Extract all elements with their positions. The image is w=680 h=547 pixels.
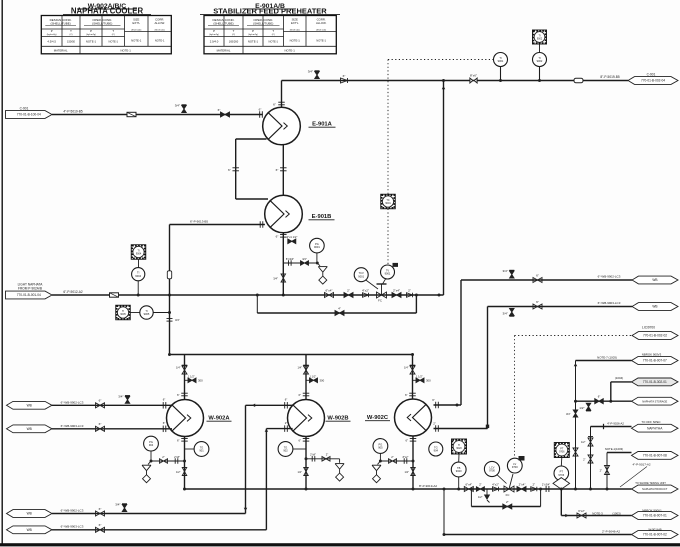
flange on E-901A/B stem: [280, 167, 287, 169]
node before corner riser: [438, 294, 441, 297]
node drain junction: [316, 262, 319, 265]
node overhead line / riser junction: [442, 79, 445, 82]
heat exchanger W-902A: [167, 400, 204, 437]
connector flag WB supply 3: [7, 510, 53, 518]
svg-text:2": 2": [433, 422, 436, 426]
connector flag NBROK 900V1: [632, 512, 679, 520]
wire off-spec line: [591, 426, 632, 428]
wire C-901 inlet line to E-901A: [52, 114, 263, 116]
wire W-902B bottom stem: [305, 437, 307, 490]
vent valve on W-902A bottom stem: [182, 468, 187, 476]
svg-text:NOTE-1: NOTE-1: [248, 40, 259, 44]
drain funnel W-902B: [339, 459, 341, 463]
wire W-902C drain line: [380, 460, 413, 462]
svg-text:(Shell side): (Shell side): [316, 30, 326, 32]
wire W-902B top stem: [305, 355, 307, 401]
wire bottom product line: [185, 488, 632, 490]
svg-text:NOTE-1: NOTE-1: [121, 48, 132, 52]
svg-text:(SHELL/TUBE): (SHELL/TUBE): [253, 21, 273, 25]
wire NBROK drop from product line: [560, 489, 562, 516]
svg-text:2": 2": [408, 288, 411, 292]
svg-text:(Shell side): (Shell side): [155, 30, 165, 32]
flange W-902B upper nozzle: [284, 402, 286, 409]
svg-text:LIC/9700: LIC/9700: [642, 326, 655, 330]
wire NOTE-1 branch line: [607, 452, 632, 454]
wire bypass right rise: [415, 295, 417, 313]
valve 6 on supply 1: [96, 403, 105, 408]
vent valve on supply 3: [122, 505, 127, 512]
signal line dashed horizontal to TI-9001: [388, 59, 494, 61]
connector flag NOTE-1: [632, 452, 679, 460]
reducer on main line: [110, 293, 119, 297]
instrument interlock box on signal riser: [381, 194, 396, 209]
svg-text:6": 6": [598, 395, 601, 399]
wire NOTE-1 branch riser x607: [606, 453, 608, 490]
svg-text:1/4": 1/4": [297, 366, 302, 370]
svg-text:2"x8": 2"x8": [310, 454, 316, 457]
instrument LCV-9700: [484, 461, 499, 476]
svg-text:8"x3/4": 8"x3/4": [286, 257, 294, 261]
connector flag WB supply 4: [7, 526, 53, 534]
svg-text:W-902A: W-902A: [208, 415, 230, 421]
svg-text:ALLOW.: ALLOW.: [316, 21, 327, 25]
svg-text:6"-WB-9903-LC3: 6"-WB-9903-LC3: [598, 301, 621, 305]
svg-text:2"x8": 2"x8": [174, 456, 180, 459]
svg-text:2": 2": [532, 482, 535, 486]
spec blind valve 1-1/2 300 at W-902C: [413, 379, 417, 381]
wire feed riser x169: [169, 225, 171, 296]
flange on W-902C drain: [403, 458, 405, 464]
svg-text:6"-WB-9903-LC3: 6"-WB-9903-LC3: [61, 424, 84, 428]
instrument PT-9706: [554, 466, 569, 481]
flange E-901A top nozzle: [278, 101, 285, 103]
svg-text:3/4": 3/4": [115, 503, 120, 507]
wire E-901A overhead outlet line to C-901: [282, 80, 629, 82]
svg-text:770-01-B-100-04: 770-01-B-100-04: [17, 113, 41, 117]
wire E-901B bottom stem: [282, 233, 284, 295]
svg-text:1 1/2": 1 1/2": [188, 374, 195, 378]
flow arrow down on riser: [244, 508, 248, 511]
valve 2 on product bypass: [503, 504, 512, 509]
svg-text:W-902B: W-902B: [327, 415, 348, 421]
check valve 4x2 on product line: [493, 487, 499, 492]
valve 2 on main line: [344, 293, 353, 298]
svg-text:(Shell side): (Shell side): [131, 30, 141, 32]
wire W-902A drain line: [151, 460, 185, 462]
flange E-901A side nozzle: [259, 111, 261, 118]
svg-text:NOTE-3: NOTE-3: [592, 511, 603, 515]
svg-text:2"x4": 2"x4": [519, 482, 526, 486]
svg-text:1/2": 1/2": [581, 440, 586, 444]
valve 2 on off-spec riser: [588, 455, 593, 463]
svg-text:9005: 9005: [120, 313, 126, 316]
wire main line bypass: [257, 312, 416, 314]
sheet left border line: [1, 0, 3, 544]
flange W-902B top nozzle: [303, 392, 310, 394]
svg-text:WB: WB: [27, 404, 32, 408]
instrument TG-904: [429, 442, 443, 456]
svg-text:8"x2": 8"x2": [403, 456, 409, 459]
svg-text:4"x2": 4"x2": [492, 482, 499, 486]
svg-text:NOTE-1: NOTE-1: [290, 39, 301, 43]
instrument TI-9005 shared display below line: [116, 305, 131, 320]
wire E-901A top stem: [281, 81, 283, 108]
flange W-902C upper right nozzle: [435, 402, 437, 409]
sheet bottom border bar: [0, 543, 680, 546]
svg-text:9001: 9001: [314, 245, 320, 249]
node TI-9001 tap: [499, 79, 502, 82]
valve on W-902C stem: [410, 366, 415, 374]
svg-text:(SHELL/TUBE): (SHELL/TUBE): [92, 21, 112, 25]
svg-text:300: 300: [198, 379, 203, 383]
wire naphata storage line: [576, 400, 632, 402]
svg-text:1/2": 1/2": [297, 470, 302, 474]
wire E-901B drain sub-line: [283, 262, 317, 264]
reducer on inlet line: [127, 112, 136, 116]
svg-text:770-01-B-007-07: 770-01-B-007-07: [643, 359, 667, 363]
svg-text:(kg/cm2g): (kg/cm2g): [47, 34, 57, 36]
valve 6 on storage line: [595, 399, 604, 404]
svg-text:NAPHATA PRODUCT: NAPHATA PRODUCT: [642, 487, 668, 491]
svg-text:3/4": 3/4": [566, 412, 571, 416]
svg-text:NAPHATA COOLER: NAPHATA COOLER: [71, 6, 144, 15]
valve 3/4 on drain sub-line: [301, 261, 309, 266]
inline component on feed riser: [167, 271, 171, 279]
svg-text:6": 6": [177, 438, 180, 442]
signal line LIC dashed horizontal: [515, 335, 633, 337]
svg-text:6"x4": 6"x4": [465, 482, 472, 486]
flange on riser below main line: [167, 318, 173, 320]
wire product bypass: [470, 489, 472, 507]
valve 6 on WB return upper: [533, 278, 542, 283]
valve 2 on NOTE-1 riser: [605, 466, 610, 475]
flow arrow at NOTE-7 corner: [574, 363, 578, 366]
wire W-902C upper outlet: [434, 404, 462, 406]
svg-text:3/4": 3/4": [273, 277, 278, 281]
flange W-902A top nozzle: [181, 392, 188, 394]
signal line TV-9001 dashed riser: [387, 60, 389, 195]
vent valve 3/4 on WB return upper: [510, 271, 515, 278]
svg-text:WB: WB: [652, 278, 657, 282]
valve 6 on supply 3: [96, 511, 105, 516]
svg-text:165/260: 165/260: [229, 40, 239, 44]
heat exchanger E-901A: [263, 107, 301, 145]
svg-text:770-01-B-007-02: 770-01-B-007-02: [643, 533, 667, 537]
instrument TI-9001: [494, 53, 508, 67]
svg-text:T: T: [70, 29, 72, 33]
drain funnel W-902A: [148, 461, 151, 464]
diamond seal at PT tap: [553, 478, 570, 490]
spectacle blind on off-spec line: [603, 424, 605, 429]
wire WB return line upper: [461, 279, 632, 281]
svg-text:6": 6": [273, 103, 276, 107]
svg-text:2"x4": 2"x4": [393, 288, 400, 292]
heat exchanger W-902C: [395, 399, 432, 436]
flange on left loop: [232, 167, 239, 169]
node TI tap on main line: [137, 294, 140, 297]
svg-text:6": 6": [163, 421, 166, 425]
svg-text:9005: 9005: [144, 312, 150, 316]
instrument TI-9004: [132, 268, 145, 281]
svg-text:9001: 9001: [385, 202, 391, 205]
svg-text:2": 2": [326, 453, 328, 457]
svg-text:6": 6": [298, 438, 301, 442]
connector flag NAPHATA PRODUCT: [632, 485, 679, 493]
connector flag WB return lower: [632, 303, 678, 311]
svg-text:6": 6": [218, 108, 221, 112]
node W-902B stem to product line: [305, 488, 308, 491]
svg-text:6": 6": [343, 74, 346, 78]
svg-text:2": 2": [479, 482, 482, 486]
svg-text:6": 6": [228, 168, 231, 172]
wire W-902C upper return riser: [460, 280, 462, 405]
wire E-901A to E-901B stem: [282, 145, 284, 196]
wire NOTE-7 line: [576, 360, 632, 362]
node TI-9005 tap on riser: [168, 311, 171, 314]
svg-text:(SHELL/TUBE): (SHELL/TUBE): [213, 21, 233, 25]
svg-text:6"-WB-9902-LC3: 6"-WB-9902-LC3: [61, 508, 84, 512]
wire E-901B feed line: [170, 224, 265, 226]
svg-text:300: 300: [426, 379, 431, 383]
svg-text:3/4": 3/4": [175, 318, 180, 322]
inline item on overhead line: [574, 78, 583, 83]
wire W-902A top stem: [184, 355, 186, 401]
svg-text:W-902C: W-902C: [367, 415, 389, 421]
svg-text:6": 6": [259, 107, 262, 111]
valve 6x4 on product line: [464, 487, 473, 492]
instrument PG-9001: [310, 238, 325, 253]
svg-text:NAPHTHA: NAPHTHA: [647, 426, 663, 430]
svg-text:T: T: [272, 29, 274, 33]
svg-text:770-01-B-002-04: 770-01-B-002-04: [641, 79, 665, 83]
svg-text:NOTE-1: NOTE-1: [86, 40, 97, 44]
vent valve on supply 1: [125, 396, 130, 403]
wire W-902B lower feed riser: [265, 429, 267, 530]
instrument TI-9005: [140, 306, 153, 319]
svg-text:9706: 9706: [559, 450, 565, 453]
svg-text:6": 6": [536, 300, 539, 304]
instrument PG-904 at W-902A: [144, 436, 159, 451]
svg-text:TO SHORE TESING UNIT: TO SHORE TESING UNIT: [635, 481, 666, 485]
node TB tap: [457, 488, 460, 491]
vent stub on storage line: [586, 403, 591, 410]
valve 2x4 on main line: [392, 293, 401, 298]
svg-text:9700: 9700: [489, 469, 495, 473]
svg-text:2": 2": [285, 421, 288, 425]
wire product line to lower header drop: [443, 489, 445, 535]
svg-text:904: 904: [434, 449, 439, 453]
svg-text:1/2": 1/2": [579, 406, 584, 410]
svg-text:NOTE-1: NOTE-1: [316, 39, 326, 43]
check valve 4x2 on main line: [363, 293, 369, 298]
connector flag off-spec naphtha: [632, 424, 679, 432]
flange W-902B bottom nozzle: [303, 438, 310, 440]
svg-text:WB: WB: [27, 528, 32, 532]
svg-text:6": 6": [276, 168, 279, 172]
spec blind valve 1-1/2 300 at W-902A: [185, 379, 189, 381]
svg-text:770-01-B-001-04: 770-01-B-001-04: [17, 293, 41, 297]
svg-text:4"-P-9017-A2: 4"-P-9017-A2: [632, 462, 650, 466]
vent valve on W-902C bottom stem: [411, 468, 416, 476]
wire lower header line: [444, 534, 632, 536]
wire W-902B drain line: [306, 458, 340, 460]
svg-text:6": 6": [99, 399, 102, 403]
signal line LIC dashed riser: [514, 336, 516, 459]
svg-text:NOTE-1: NOTE-1: [285, 48, 296, 52]
wire header down-feed: [169, 295, 171, 355]
svg-text:NOTE-7 (1003): NOTE-7 (1003): [597, 355, 617, 359]
wire main line bypass left drop: [256, 295, 258, 313]
wire W-902B upper feed riser: [245, 405, 247, 513]
flange W-902C top nozzle: [409, 392, 416, 394]
node storage line junction: [574, 400, 577, 403]
control valve LV-9700 body: [504, 486, 514, 492]
svg-text:P: P: [51, 29, 53, 33]
svg-text:2": 2": [600, 469, 602, 473]
wire E-901A left loop lower to E-901B: [236, 198, 268, 200]
svg-text:902: 902: [283, 449, 288, 453]
svg-text:901: 901: [199, 449, 204, 453]
wire WB return line lower: [488, 306, 633, 308]
check valve 2 on product line: [531, 487, 537, 492]
spec blind valve 1-1/2 300 at W-902B: [306, 379, 310, 381]
svg-text:150/50: 150/50: [67, 40, 75, 44]
instrument PG-905 at W-902C: [373, 439, 388, 454]
wire main outlet riser x445: [443, 81, 445, 296]
svg-text:6"x4": 6"x4": [326, 288, 333, 292]
heat exchanger E-901B: [265, 195, 303, 233]
svg-text:(C): (C): [112, 34, 115, 36]
wire W-902 top header: [170, 354, 413, 356]
svg-text:2.0/4.0: 2.0/4.0: [210, 40, 219, 44]
instrument PT-9706 shared display: [554, 443, 569, 458]
connector flag NBROK 900V3: [632, 357, 679, 365]
flow arrow right on NBROK line: [565, 514, 568, 518]
svg-text:904: 904: [149, 443, 154, 447]
svg-text:6": 6": [285, 398, 288, 402]
svg-text:WB: WB: [27, 512, 32, 516]
svg-text:TO OFF SPEC: TO OFF SPEC: [641, 420, 660, 424]
valve 6 on supply 4: [96, 527, 105, 532]
valve 6 on supply 2: [96, 426, 105, 431]
svg-text:T: T: [112, 29, 114, 33]
node W-902C stem to product line: [412, 488, 415, 491]
svg-text:770-01-B-007-08: 770-01-B-007-08: [643, 454, 667, 458]
svg-text:8"x6": 8"x6": [470, 73, 477, 77]
flange E-901B bottom nozzle: [280, 234, 287, 236]
instrument TB-9020 shared display: [452, 439, 467, 454]
flow arrow down riser: [442, 86, 446, 89]
svg-text:6": 6": [536, 273, 539, 277]
wire W-902B lower nozzle line: [266, 428, 292, 430]
svg-text:(1003): (1003): [612, 511, 620, 515]
svg-text:6": 6": [177, 393, 180, 397]
svg-text:6"x2": 6"x2": [578, 509, 585, 513]
drain funnel and closed drain diamond: [317, 263, 320, 266]
heat exchanger W-902B: [288, 400, 325, 437]
flange W-902C lower right nozzle: [435, 425, 437, 432]
svg-text:9004: 9004: [136, 252, 142, 255]
svg-text:6"-P-9013-B5: 6"-P-9013-B5: [190, 219, 208, 223]
node bypass return: [415, 294, 418, 297]
svg-text:3/4": 3/4": [175, 104, 180, 108]
instrument TI-9002: [533, 53, 547, 67]
svg-text:2": 2": [583, 458, 585, 462]
svg-text:4"x2": 4"x2": [362, 288, 369, 292]
solenoid box at TV-9001: [393, 263, 399, 267]
svg-text:EXT'L: EXT'L: [291, 21, 299, 25]
instrument TI-9002 shared display: [533, 30, 547, 44]
svg-text:9020: 9020: [456, 447, 462, 450]
svg-text:FROM P-902A/B: FROM P-902A/B: [18, 287, 42, 291]
svg-text:EXT'L: EXT'L: [132, 21, 140, 25]
svg-text:770-01-B-007-01: 770-01-B-007-01: [643, 514, 667, 518]
svg-text:MATERIAL: MATERIAL: [217, 48, 231, 52]
wire W-902C lower outlet: [434, 428, 488, 430]
svg-text:6": 6": [405, 393, 408, 397]
valve 2 on W-902B drain: [322, 457, 330, 462]
svg-text:(SHELL/TUBE): (SHELL/TUBE): [50, 21, 70, 25]
instrument TV-9001: [381, 265, 395, 279]
valve 2 on storage riser lower: [573, 448, 578, 456]
svg-text:1/2": 1/2": [404, 470, 409, 474]
svg-text:(C): (C): [69, 34, 72, 36]
svg-text:6": 6": [99, 422, 102, 426]
wire main process line: [52, 294, 444, 296]
valve on W-902A stem: [182, 366, 187, 374]
svg-text:300: 300: [320, 379, 325, 383]
svg-text:9002: 9002: [537, 59, 543, 63]
reducer 8x6 on overhead line: [470, 78, 477, 83]
svg-text:NOTE-1: NOTE-1: [108, 40, 118, 44]
svg-text:905: 905: [378, 446, 383, 450]
control valve TV-9001 body: [377, 292, 387, 298]
table W-902A/B/C NAPHATA COOLER data table: [41, 16, 171, 54]
svg-text:1/2": 1/2": [176, 470, 181, 474]
svg-text:NBROK 900V3: NBROK 900V3: [642, 352, 662, 356]
svg-text:2"-P-9046-A2: 2"-P-9046-A2: [602, 530, 620, 534]
svg-text:NOTE-1: NOTE-1: [155, 39, 165, 43]
valve 6 on WB return lower: [533, 304, 542, 309]
node E-901B stem to main line: [282, 294, 285, 297]
svg-text:9020: 9020: [456, 469, 462, 473]
svg-text:E-901A: E-901A: [312, 121, 332, 127]
svg-text:9001: 9001: [358, 274, 364, 278]
valve 2 on W-902A drain: [160, 459, 168, 464]
svg-text:6": 6": [432, 398, 435, 402]
flange 2x3/4 on product line: [545, 486, 547, 492]
vent valve 3/4 on E-901B stem: [281, 274, 286, 282]
wire 1004 branch riser: [610, 382, 612, 401]
flow arrow up near W-902B lower corner: [265, 429, 269, 432]
svg-text:2": 2": [506, 500, 509, 504]
valve 2x4 on product line: [517, 487, 526, 492]
svg-text:C-901: C-901: [20, 106, 29, 110]
svg-text:1 1/2": 1 1/2": [416, 374, 423, 378]
connector flag WB supply 1: [7, 401, 53, 409]
flange W-902A upper nozzle: [162, 402, 164, 409]
flow arrow on W-902B upper feed: [252, 404, 255, 408]
connector flag WB return upper: [632, 276, 678, 284]
svg-text:3/4": 3/4": [118, 394, 123, 398]
svg-text:E-901B: E-901B: [312, 214, 332, 220]
svg-text:P: P: [213, 29, 215, 33]
valve 6 inlet block valve: [221, 112, 230, 117]
vent valve on W-902B bottom stem: [304, 468, 309, 476]
connector flag LIC signal: [632, 332, 678, 340]
svg-text:P: P: [252, 29, 254, 33]
svg-text:2": 2": [391, 455, 393, 459]
